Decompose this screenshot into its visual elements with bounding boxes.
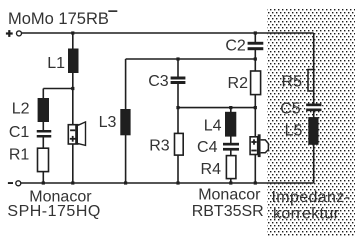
svg-text:C5: C5 — [280, 101, 301, 118]
svg-text:R5: R5 — [282, 73, 303, 90]
svg-text:L4: L4 — [204, 118, 222, 135]
svg-text:C1: C1 — [9, 124, 30, 141]
svg-text:C2: C2 — [225, 38, 246, 55]
svg-text:R4: R4 — [201, 161, 222, 178]
svg-text:MoMo 175RB: MoMo 175RB — [8, 10, 109, 28]
svg-text:L2: L2 — [12, 100, 30, 117]
svg-text:SPH-175HQ: SPH-175HQ — [7, 203, 100, 220]
svg-text:R2: R2 — [228, 75, 249, 92]
svg-text:korrektur: korrektur — [273, 206, 340, 223]
svg-text:L5: L5 — [285, 123, 303, 140]
svg-text:R1: R1 — [9, 146, 30, 163]
svg-text:Monacor: Monacor — [198, 186, 261, 203]
svg-text:L1: L1 — [47, 55, 65, 72]
svg-text:C4: C4 — [197, 139, 218, 156]
svg-text:Impedanz-: Impedanz- — [272, 189, 351, 206]
svg-text:L3: L3 — [99, 114, 117, 131]
svg-text:RBT35SR: RBT35SR — [192, 203, 264, 220]
svg-text:R3: R3 — [149, 137, 170, 154]
svg-text:C3: C3 — [148, 73, 169, 90]
